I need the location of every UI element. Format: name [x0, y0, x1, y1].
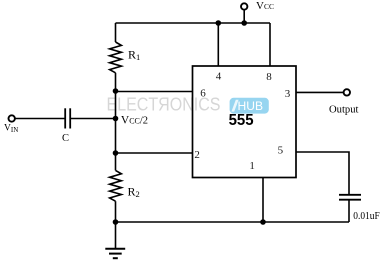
- svg-text:VIN: VIN: [4, 124, 18, 135]
- svg-text:6: 6: [200, 88, 206, 100]
- svg-text:1: 1: [249, 160, 255, 172]
- svg-text:0.01uF: 0.01uF: [353, 210, 379, 222]
- svg-text:VCC/2: VCC/2: [121, 115, 148, 127]
- svg-text:4: 4: [216, 71, 222, 83]
- svg-text:Output: Output: [329, 104, 359, 116]
- svg-text:5: 5: [278, 145, 284, 157]
- svg-text:3: 3: [285, 88, 291, 100]
- svg-text:2: 2: [194, 149, 200, 161]
- svg-text:555: 555: [229, 112, 254, 129]
- svg-text:8: 8: [266, 71, 272, 83]
- svg-text:VCC: VCC: [256, 0, 274, 12]
- svg-text:C: C: [62, 133, 69, 144]
